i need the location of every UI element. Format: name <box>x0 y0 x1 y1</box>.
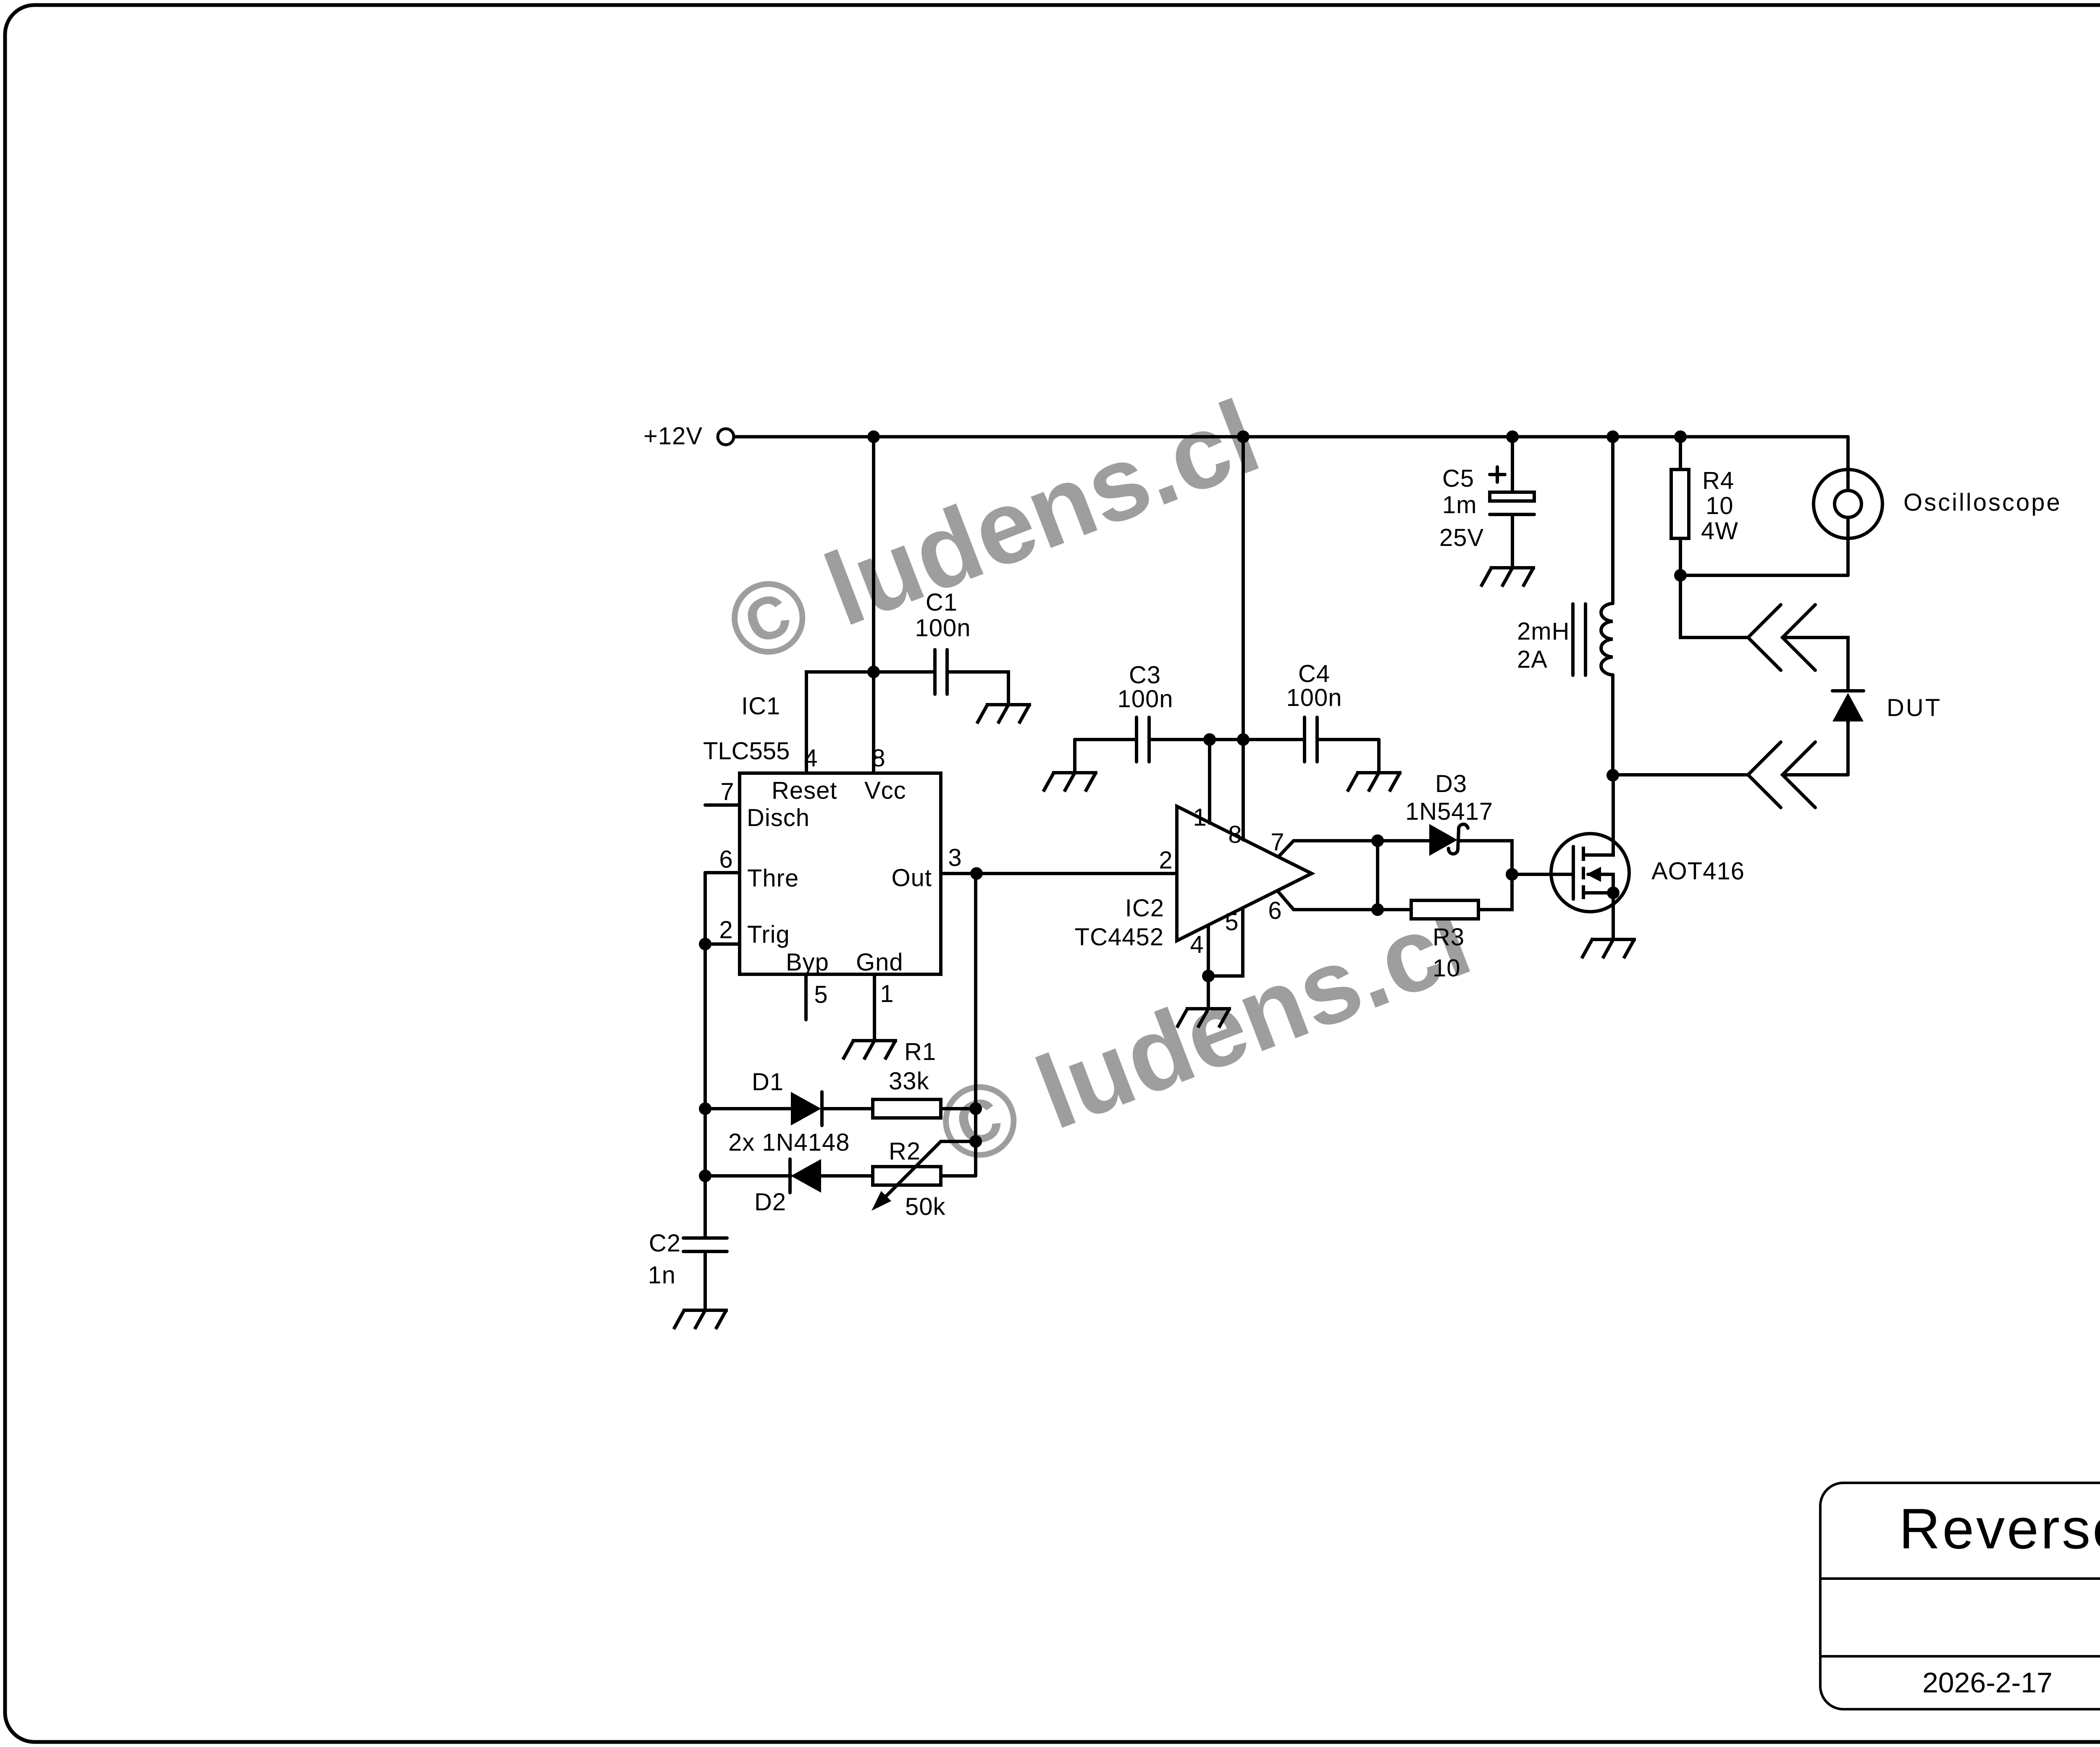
svg-text:D2: D2 <box>754 1188 786 1216</box>
svg-text:Trig: Trig <box>747 921 790 948</box>
svg-text:IC2: IC2 <box>1125 894 1164 922</box>
svg-text:2026-2-17: 2026-2-17 <box>1922 1667 2053 1699</box>
svg-text:Disch: Disch <box>747 804 810 832</box>
svg-text:2: 2 <box>1159 847 1173 874</box>
svg-text:Oscilloscope: Oscilloscope <box>1903 489 2062 516</box>
svg-text:C4: C4 <box>1298 660 1330 687</box>
svg-text:R4: R4 <box>1702 467 1734 494</box>
svg-text:1: 1 <box>1193 804 1207 831</box>
svg-text:2: 2 <box>719 916 733 944</box>
svg-text:TLC555: TLC555 <box>703 737 790 765</box>
svg-text:6: 6 <box>719 846 733 873</box>
svg-text:Out: Out <box>892 864 932 892</box>
svg-text:25V: 25V <box>1439 524 1484 551</box>
svg-text:R1: R1 <box>904 1038 936 1065</box>
svg-text:6: 6 <box>1268 897 1282 924</box>
svg-text:1N5417: 1N5417 <box>1405 798 1493 825</box>
svg-text:7: 7 <box>720 778 734 805</box>
svg-text:Reverse Recovery Tester: Reverse Recovery Tester <box>1899 1497 2100 1561</box>
svg-text:10: 10 <box>1706 492 1734 519</box>
svg-text:Reset: Reset <box>772 777 837 804</box>
svg-text:C5: C5 <box>1442 465 1474 492</box>
svg-text:100n: 100n <box>1117 685 1173 713</box>
svg-text:IC1: IC1 <box>741 693 780 720</box>
svg-text:Vcc: Vcc <box>864 777 906 804</box>
svg-text:R3: R3 <box>1433 923 1465 951</box>
svg-text:2A: 2A <box>1517 646 1548 673</box>
svg-text:C3: C3 <box>1129 661 1161 689</box>
svg-text:10: 10 <box>1433 955 1461 982</box>
svg-text:1: 1 <box>880 980 894 1007</box>
svg-text:8: 8 <box>1228 821 1242 848</box>
svg-text:100n: 100n <box>915 614 971 642</box>
svg-text:C2: C2 <box>649 1230 681 1257</box>
svg-text:AOT416: AOT416 <box>1651 858 1745 885</box>
svg-text:TC4452: TC4452 <box>1075 923 1164 951</box>
svg-text:2x 1N4148: 2x 1N4148 <box>728 1129 850 1156</box>
svg-text:7: 7 <box>1270 829 1284 856</box>
svg-text:2mH: 2mH <box>1517 618 1570 645</box>
svg-text:C1: C1 <box>926 589 958 616</box>
svg-text:1m: 1m <box>1442 491 1477 519</box>
svg-text:DUT: DUT <box>1887 694 1942 721</box>
svg-text:3: 3 <box>948 844 962 871</box>
svg-text:4W: 4W <box>1701 517 1738 545</box>
svg-text:33k: 33k <box>889 1068 929 1095</box>
svg-text:4: 4 <box>1190 931 1204 958</box>
svg-text:8: 8 <box>871 745 885 772</box>
svg-text:4: 4 <box>804 745 818 772</box>
svg-text:+12V: +12V <box>643 422 703 450</box>
svg-text:Byp: Byp <box>786 949 829 976</box>
svg-text:1n: 1n <box>648 1262 676 1289</box>
svg-text:D3: D3 <box>1435 770 1467 797</box>
svg-text:© ludens.cl: © ludens.cl <box>711 378 1273 686</box>
svg-text:R2: R2 <box>889 1138 921 1165</box>
svg-text:Gnd: Gnd <box>856 949 903 976</box>
svg-text:100n: 100n <box>1286 684 1342 711</box>
svg-text:50k: 50k <box>905 1193 946 1220</box>
svg-text:D1: D1 <box>752 1068 784 1096</box>
svg-text:5: 5 <box>1225 908 1239 936</box>
svg-text:Thre: Thre <box>747 865 799 892</box>
svg-text:5: 5 <box>814 981 828 1008</box>
